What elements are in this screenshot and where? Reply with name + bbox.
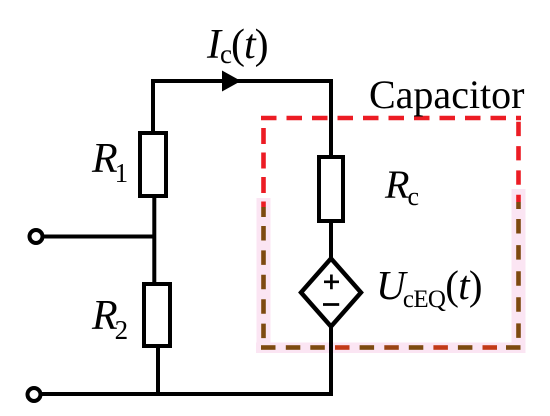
highlight halo bottom bbox=[256, 343, 525, 354]
wire to upper terminal bbox=[42, 235, 156, 239]
resistor Rc bbox=[319, 157, 343, 221]
dashed box bottom edge dash 8 (red) bbox=[433, 345, 448, 350]
label Ic(t) bbox=[207, 24, 268, 66]
dashed box Capacitor top edge bbox=[261, 116, 521, 121]
minus sign inside source bbox=[323, 303, 339, 306]
current arrow Ic bbox=[222, 71, 241, 92]
dashed box bottom edge dash 3 (brown) bbox=[310, 345, 325, 350]
dashed box bottom edge dash 4 (red) bbox=[335, 345, 350, 350]
dashed box Capacitor right edge upper (red) bbox=[516, 122, 521, 202]
resistor R2 bbox=[144, 284, 170, 346]
label R1 bbox=[92, 138, 128, 180]
label Capacitor bbox=[369, 75, 525, 115]
dashed box left edge transition dash (brown) bbox=[261, 207, 266, 217]
terminal lower-left bbox=[28, 388, 41, 401]
controlled source UcEQ (diamond) bbox=[301, 259, 361, 327]
wire left middle (R1 bottom to R2 top) bbox=[152, 196, 156, 284]
highlight halo left bbox=[257, 198, 271, 348]
terminal upper-left bbox=[30, 230, 43, 243]
dashed box bottom edge dash 9 (brown) bbox=[458, 345, 473, 350]
plus sign inside source bbox=[324, 275, 339, 290]
dashed box bottom edge dash 2 (brown) bbox=[286, 345, 301, 350]
label R2 bbox=[92, 295, 128, 337]
dashed box right edge transition dash (brown) bbox=[516, 202, 521, 209]
dashed box bottom edge dash 5 (brown) bbox=[360, 345, 375, 350]
wire top (R1 top to Rc top via top rail) bbox=[153, 81, 331, 156]
dashed box bottom edge dash 10 (red) bbox=[483, 345, 498, 350]
dashed box bottom edge dash 1 (brown) bbox=[261, 345, 276, 350]
wire R2 bottom to bottom rail bbox=[156, 346, 160, 394]
dashed box Capacitor left edge upper (red) bbox=[261, 128, 266, 207]
label Rc bbox=[385, 165, 419, 205]
highlight halo right bbox=[512, 189, 526, 353]
dashed box bottom edge dash 7 (brown) bbox=[409, 345, 424, 350]
resistor R1 bbox=[140, 133, 166, 196]
wire Rc bottom to source top bbox=[329, 221, 333, 262]
dashed box right edge lower (brown) bbox=[516, 219, 521, 340]
dashed box bottom edge dash 6 (red-brown) bbox=[384, 345, 399, 350]
label UcEQ(t) bbox=[376, 265, 482, 306]
dashed box left edge lower (brown) bbox=[261, 226, 266, 339]
dashed box bottom edge dash 11 (brown) bbox=[506, 345, 521, 350]
wire bottom rail bbox=[41, 325, 331, 394]
